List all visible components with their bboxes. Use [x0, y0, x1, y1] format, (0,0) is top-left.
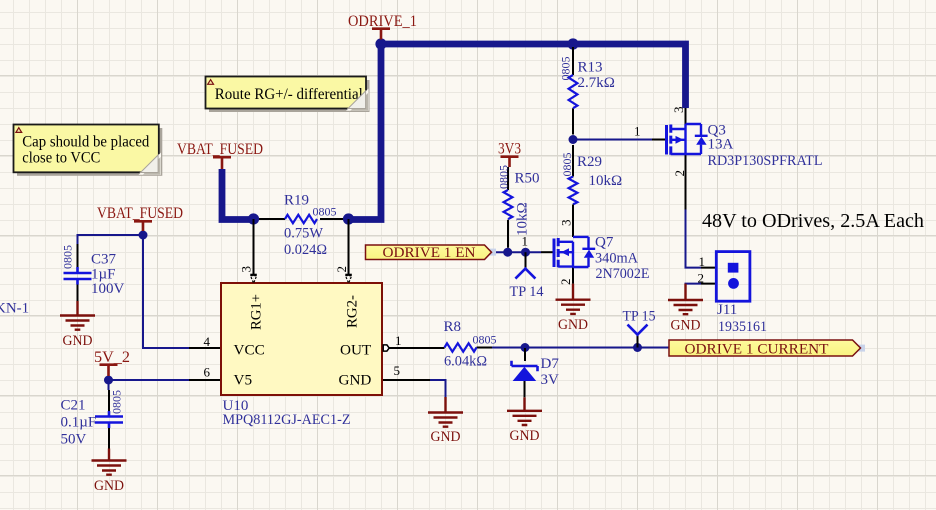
svg-text:0805: 0805 — [559, 57, 573, 81]
U10 pin 2 — [334, 266, 349, 273]
test point TP 14 — [510, 252, 544, 300]
resistor R13 — [559, 47, 615, 135]
svg-text:6: 6 — [204, 365, 211, 380]
capacitor C21 — [61, 390, 124, 449]
transistor Q3 (P-MOSFET) — [634, 107, 823, 210]
resistor R29 — [560, 145, 622, 237]
svg-text:GND: GND — [339, 372, 372, 389]
svg-text:0.024Ω: 0.024Ω — [284, 242, 327, 258]
Q7 pin 3 — [559, 220, 574, 227]
power port ODRIVE_1 — [348, 13, 417, 40]
svg-text:1: 1 — [522, 234, 529, 249]
svg-text:RD3P130SPFRATL: RD3P130SPFRATL — [708, 153, 823, 169]
svg-text:48V to ODrives, 2.5A Each: 48V to ODrives, 2.5A Each — [702, 211, 924, 232]
ground under U10 pin 5 — [428, 397, 463, 427]
wire VBAT_FUSED down to U10 VCC pin 4 — [143, 235, 189, 348]
svg-text:GND: GND — [510, 427, 540, 444]
svg-text:3: 3 — [239, 266, 254, 273]
R50 value 10k — [515, 202, 531, 236]
ground under D7 — [507, 397, 542, 425]
svg-text:0.75W: 0.75W — [284, 226, 324, 242]
junction R50 bottom — [503, 248, 512, 257]
svg-text:Route RG+/- differential: Route RG+/- differential — [215, 86, 363, 103]
svg-text:3V3: 3V3 — [498, 141, 521, 158]
junction TP14 — [521, 248, 530, 257]
Q3 pin 3 — [671, 107, 686, 114]
C21 footprint 0805 — [110, 390, 124, 414]
svg-text:5: 5 — [394, 363, 401, 378]
wire VBAT_FUSED left horizontal to C37 — [78, 235, 144, 244]
svg-text:VCC: VCC — [234, 342, 265, 359]
svg-text:0.1µF: 0.1µF — [61, 415, 97, 431]
svg-text:D7: D7 — [541, 356, 560, 372]
pin 3 arrow — [250, 274, 256, 276]
svg-text:MPQ8112GJ-AEC1-Z: MPQ8112GJ-AEC1-Z — [223, 412, 351, 428]
svg-text:1: 1 — [699, 254, 706, 269]
svg-text:R8: R8 — [444, 319, 462, 335]
power port VBAT_FUSED left — [97, 205, 183, 231]
wire thick from R19 right up to rail — [349, 44, 382, 220]
wire ODRIVE_1_EN port to Q7 gate — [491, 251, 541, 253]
C37 footprint 0805 — [61, 245, 75, 269]
svg-text:C37: C37 — [91, 252, 117, 268]
Q7 pin 2 — [558, 279, 573, 286]
junction on rail at R13 — [567, 38, 578, 49]
R50 footprint 0805 — [497, 165, 511, 189]
svg-text:GND: GND — [63, 332, 93, 349]
svg-text:6.04kΩ: 6.04kΩ — [444, 354, 487, 370]
ground under C21 — [92, 449, 127, 475]
wire thick from VBAT_FUSED down to R19 — [222, 169, 254, 220]
junction R19 right / U10 pin 2 — [343, 213, 354, 224]
wire 5V_2 down to C21 — [108, 380, 110, 390]
pin 2 arrow — [345, 274, 352, 276]
IC U10 MPQ8112GJ-AEC1-Z — [189, 219, 430, 428]
svg-text:TP 14: TP 14 — [510, 284, 544, 300]
svg-text:V5: V5 — [234, 372, 253, 389]
svg-text:close to VCC: close to VCC — [22, 149, 100, 166]
pin 1 out arrow — [383, 345, 389, 351]
Q3 pin 2 — [672, 170, 687, 177]
svg-text:Cap should be placed: Cap should be placed — [22, 133, 149, 150]
ground under Q7 — [556, 284, 591, 314]
svg-text:1: 1 — [634, 124, 641, 139]
svg-text:GND: GND — [558, 316, 588, 333]
svg-text:RG1+: RG1+ — [248, 294, 265, 330]
resistor R19 — [259, 193, 343, 259]
svg-text:1935161: 1935161 — [718, 319, 767, 335]
svg-text:GND: GND — [94, 477, 124, 494]
svg-text:RG2-: RG2- — [344, 295, 361, 328]
svg-text:0805: 0805 — [473, 333, 497, 347]
ground under J11 pin 2 — [668, 284, 703, 315]
capacitor C37 — [61, 244, 125, 301]
U10 pin name RG2- — [344, 295, 361, 328]
svg-text:0805: 0805 — [61, 245, 75, 269]
svg-text:0805: 0805 — [497, 165, 511, 189]
junction 5V_2 — [104, 376, 113, 385]
svg-text:3: 3 — [559, 220, 574, 227]
svg-text:C21: C21 — [61, 398, 86, 414]
svg-text:3: 3 — [671, 107, 686, 114]
test point TP 15 — [623, 309, 656, 348]
svg-text:50V: 50V — [61, 432, 87, 448]
junction VBAT_FUSED left — [139, 231, 148, 240]
svg-text:0805: 0805 — [313, 205, 337, 219]
transistor Q7 (N-MOSFET) — [522, 205, 650, 286]
svg-text:2: 2 — [558, 279, 573, 286]
svg-text:10kΩ: 10kΩ — [515, 202, 531, 236]
svg-text:VBAT_FUSED: VBAT_FUSED — [177, 141, 263, 158]
svg-text:VBAT_FUSED: VBAT_FUSED — [97, 205, 183, 222]
junction R19 left / U10 pin 3 — [248, 213, 259, 224]
resistor R8 — [389, 319, 497, 370]
R29 footprint 0805 — [560, 153, 574, 177]
svg-text:0805: 0805 — [110, 390, 124, 414]
wire R8 to ODRIVE_1_CURRENT port — [492, 347, 669, 349]
svg-text:TP 15: TP 15 — [623, 309, 656, 325]
svg-text:GND: GND — [431, 428, 461, 445]
svg-text:13A: 13A — [708, 137, 734, 153]
svg-text:R29: R29 — [577, 154, 602, 170]
svg-text:340mA: 340mA — [595, 251, 638, 267]
U10 pin 3 — [239, 266, 254, 273]
svg-text:ODRIVE 1 EN: ODRIVE 1 EN — [383, 245, 476, 261]
wire U10 GND pin 5 to ground — [430, 380, 446, 397]
power port 3V3 — [498, 141, 521, 168]
svg-text:Q7: Q7 — [595, 235, 614, 251]
svg-text:KN-1: KN-1 — [0, 301, 29, 317]
R13 footprint 0805 — [559, 57, 573, 81]
wire thick ODRIVE_1 rail top — [381, 44, 686, 108]
port ODRIVE_1_CURRENT — [669, 340, 865, 358]
wire J11 pin 2 to ground — [686, 284, 702, 287]
svg-text:0805: 0805 — [560, 153, 574, 177]
connector J11 — [698, 252, 768, 335]
power port 5V_2 — [94, 349, 130, 376]
svg-text:4: 4 — [204, 334, 211, 349]
svg-text:3V: 3V — [541, 372, 560, 388]
junction R13/R29/Q3 gate — [569, 135, 578, 144]
svg-text:R50: R50 — [515, 171, 540, 187]
power port VBAT_FUSED top — [177, 141, 263, 169]
resistor R50 — [497, 165, 540, 248]
svg-text:R13: R13 — [578, 60, 603, 76]
svg-text:2N7002E: 2N7002E — [596, 266, 650, 282]
wire R13 junction to Q3 gate — [573, 139, 652, 141]
zener diode D7 — [512, 348, 560, 397]
junction D7 top — [521, 343, 530, 352]
svg-text:2: 2 — [334, 266, 349, 273]
svg-text:2: 2 — [698, 271, 705, 286]
junction on rail at ODRIVE_1 stub — [375, 38, 386, 49]
svg-text:10kΩ: 10kΩ — [589, 173, 623, 189]
svg-text:OUT: OUT — [340, 342, 372, 359]
wire Q3 source down to J11 pin 1 — [686, 209, 702, 268]
svg-text:1: 1 — [395, 333, 402, 348]
port ODRIVE_1_EN — [366, 245, 497, 261]
svg-text:2: 2 — [672, 170, 687, 177]
svg-text:J11: J11 — [717, 302, 737, 318]
wire 5V_2 to U10 V5 pin 6 — [109, 379, 191, 381]
ground under C37 — [60, 301, 95, 330]
svg-text:100V: 100V — [91, 281, 125, 297]
svg-text:R19: R19 — [284, 193, 309, 209]
note Route RG differential — [206, 77, 370, 113]
note Cap should be placed close to VCC — [14, 125, 163, 176]
svg-text:ODRIVE 1 CURRENT: ODRIVE 1 CURRENT — [685, 342, 829, 358]
svg-text:GND: GND — [671, 317, 701, 334]
U10 pin name RG1+ — [248, 294, 265, 330]
junction TP15 — [633, 343, 642, 352]
svg-text:2.7kΩ: 2.7kΩ — [578, 75, 615, 91]
